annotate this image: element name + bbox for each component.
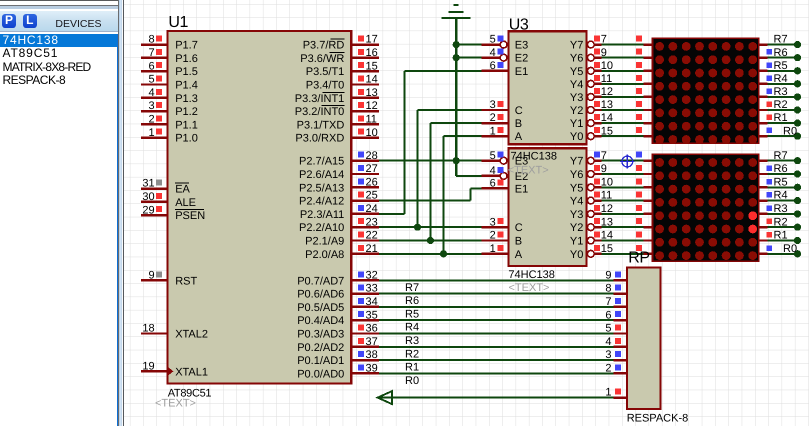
svg-text:21: 21: [366, 243, 378, 255]
svg-text:R1: R1: [774, 230, 788, 242]
svg-text:5: 5: [490, 150, 496, 162]
svg-text:9: 9: [601, 47, 607, 59]
svg-text:7: 7: [605, 296, 611, 308]
svg-text:12: 12: [366, 100, 378, 112]
svg-text:29: 29: [142, 204, 154, 216]
svg-text:RESPACK-8: RESPACK-8: [627, 413, 689, 425]
svg-text:R4: R4: [405, 322, 419, 334]
svg-text:P3.1/TXD: P3.1/TXD: [297, 119, 345, 131]
svg-text:25: 25: [366, 190, 378, 202]
svg-text:ALE: ALE: [175, 197, 196, 209]
svg-text:<TEXT>: <TEXT>: [155, 398, 196, 410]
svg-text:Y6: Y6: [570, 169, 583, 181]
svg-text:E1: E1: [515, 66, 528, 78]
svg-text:P3.6/WR: P3.6/WR: [300, 53, 344, 65]
svg-text:1: 1: [148, 127, 154, 139]
svg-text:9: 9: [148, 269, 154, 281]
svg-text:3: 3: [490, 99, 496, 111]
svg-text:R0: R0: [783, 125, 797, 137]
svg-text:P2.3/A11: P2.3/A11: [300, 209, 344, 221]
svg-text:P1.3: P1.3: [175, 93, 198, 105]
svg-text:37: 37: [366, 336, 378, 348]
svg-text:E1: E1: [515, 183, 528, 195]
svg-text:3: 3: [605, 349, 611, 361]
svg-text:P2.2/A10: P2.2/A10: [299, 222, 344, 234]
svg-text:R2: R2: [405, 348, 419, 360]
svg-text:P1.6: P1.6: [175, 53, 198, 65]
svg-text:2: 2: [490, 112, 496, 124]
svg-text:P3.2/INT0: P3.2/INT0: [295, 106, 345, 118]
svg-text:6: 6: [605, 309, 611, 321]
svg-text:34: 34: [366, 296, 378, 308]
svg-text:15: 15: [366, 60, 378, 72]
svg-text:12: 12: [601, 203, 613, 215]
svg-text:P2.1/A9: P2.1/A9: [305, 236, 344, 248]
svg-text:P0.0/AD0: P0.0/AD0: [297, 368, 344, 380]
svg-text:R3: R3: [405, 335, 419, 347]
svg-text:18: 18: [142, 323, 154, 335]
svg-text:P2.6/A14: P2.6/A14: [299, 169, 344, 181]
svg-text:8: 8: [605, 283, 611, 295]
svg-text:R0: R0: [783, 243, 797, 255]
svg-text:31: 31: [142, 178, 154, 190]
svg-text:RP: RP: [628, 249, 649, 266]
svg-text:4: 4: [490, 47, 496, 59]
svg-text:Y6: Y6: [570, 53, 583, 65]
svg-text:Y4: Y4: [570, 196, 583, 208]
svg-text:74HC138: 74HC138: [511, 151, 557, 163]
svg-text:32: 32: [366, 269, 378, 281]
svg-text:6: 6: [490, 60, 496, 72]
svg-text:R4: R4: [774, 190, 788, 202]
svg-text:P1.4: P1.4: [175, 80, 198, 92]
svg-text:P0.5/AD5: P0.5/AD5: [297, 302, 344, 314]
svg-text:15: 15: [601, 243, 613, 255]
svg-text:28: 28: [366, 150, 378, 162]
svg-text:Y1: Y1: [570, 118, 583, 130]
svg-text:R7: R7: [774, 150, 788, 162]
svg-text:A: A: [515, 249, 523, 261]
svg-text:Y7: Y7: [570, 40, 583, 52]
svg-text:6: 6: [148, 60, 154, 72]
svg-text:74HC138: 74HC138: [508, 269, 554, 281]
svg-text:36: 36: [366, 323, 378, 335]
svg-text:R4: R4: [774, 73, 788, 85]
svg-text:39: 39: [366, 363, 378, 375]
svg-text:R7: R7: [774, 34, 788, 46]
svg-text:2: 2: [490, 230, 496, 242]
svg-text:15: 15: [601, 125, 613, 137]
svg-text:7: 7: [601, 150, 607, 162]
svg-text:10: 10: [601, 176, 613, 188]
svg-text:Y5: Y5: [570, 182, 583, 194]
svg-text:22: 22: [366, 230, 378, 242]
svg-text:P3.3/INT1: P3.3/INT1: [295, 93, 345, 105]
svg-text:EA: EA: [175, 184, 190, 196]
svg-text:14: 14: [601, 230, 613, 242]
svg-text:14: 14: [601, 112, 613, 124]
svg-text:Y1: Y1: [570, 236, 583, 248]
svg-text:R3: R3: [774, 86, 788, 98]
svg-text:35: 35: [366, 309, 378, 321]
svg-text:1: 1: [490, 243, 496, 255]
svg-text:16: 16: [366, 47, 378, 59]
svg-text:P0.7/AD7: P0.7/AD7: [297, 275, 344, 287]
svg-text:3: 3: [148, 100, 154, 112]
svg-text:Y3: Y3: [570, 92, 583, 104]
svg-text:8: 8: [148, 34, 154, 46]
svg-text:7: 7: [148, 47, 154, 59]
svg-text:14: 14: [366, 74, 378, 86]
svg-text:Y2: Y2: [570, 105, 583, 117]
svg-text:12: 12: [601, 86, 613, 98]
svg-text:U1: U1: [168, 14, 188, 31]
svg-text:P1.2: P1.2: [175, 106, 198, 118]
svg-text:RST: RST: [175, 275, 197, 287]
svg-text:XTAL1: XTAL1: [175, 366, 208, 378]
svg-text:7: 7: [601, 34, 607, 46]
svg-text:R0: R0: [405, 375, 419, 387]
svg-text:P2.7/A15: P2.7/A15: [299, 156, 344, 168]
svg-text:<TEXT>: <TEXT>: [508, 165, 549, 177]
svg-text:Y2: Y2: [570, 222, 583, 234]
svg-text:P0.3/AD3: P0.3/AD3: [297, 329, 344, 341]
svg-text:13: 13: [366, 87, 378, 99]
svg-text:P3.4/T0: P3.4/T0: [306, 80, 345, 92]
svg-text:2: 2: [148, 114, 154, 126]
svg-text:Y3: Y3: [570, 209, 583, 221]
svg-text:P0.1/AD1: P0.1/AD1: [297, 355, 344, 367]
svg-text:17: 17: [366, 34, 378, 46]
svg-text:38: 38: [366, 349, 378, 361]
svg-text:R6: R6: [405, 295, 419, 307]
svg-text:PSEN: PSEN: [175, 210, 205, 222]
svg-text:P2.4/A12: P2.4/A12: [299, 196, 344, 208]
svg-text:6: 6: [490, 178, 496, 190]
svg-text:P3.5/T1: P3.5/T1: [306, 66, 345, 78]
svg-text:P2.5/A13: P2.5/A13: [299, 182, 344, 194]
svg-text:1: 1: [490, 125, 496, 137]
svg-text:R1: R1: [405, 362, 419, 374]
svg-text:P1.0: P1.0: [175, 133, 198, 145]
svg-text:Y5: Y5: [570, 66, 583, 78]
svg-text:4: 4: [148, 87, 154, 99]
svg-text:R1: R1: [774, 112, 788, 124]
svg-text:27: 27: [366, 163, 378, 175]
svg-text:11: 11: [366, 114, 377, 126]
svg-text:P3.7/RD: P3.7/RD: [303, 40, 345, 52]
svg-text:10: 10: [366, 127, 378, 139]
svg-text:R6: R6: [774, 47, 788, 59]
svg-text:R5: R5: [774, 60, 788, 72]
svg-text:B: B: [515, 118, 522, 130]
svg-text:P1.7: P1.7: [175, 40, 198, 52]
svg-text:2: 2: [605, 363, 611, 375]
svg-text:11: 11: [601, 190, 612, 202]
svg-text:P1.5: P1.5: [175, 66, 198, 78]
svg-text:Y4: Y4: [570, 79, 583, 91]
svg-text:Y0: Y0: [570, 131, 583, 143]
svg-text:Y7: Y7: [570, 156, 583, 168]
svg-text:5: 5: [605, 323, 611, 335]
svg-text:1: 1: [605, 387, 611, 399]
svg-text:XTAL2: XTAL2: [175, 329, 208, 341]
svg-text:19: 19: [142, 360, 154, 372]
svg-text:4: 4: [605, 336, 611, 348]
svg-text:30: 30: [142, 191, 154, 203]
svg-text:26: 26: [366, 176, 378, 188]
svg-text:5: 5: [148, 74, 154, 86]
svg-text:P3.0/RXD: P3.0/RXD: [295, 133, 344, 145]
svg-text:10: 10: [601, 60, 613, 72]
svg-text:<TEXT>: <TEXT>: [509, 282, 550, 294]
svg-text:P0.6/AD6: P0.6/AD6: [297, 289, 344, 301]
svg-text:P1.1: P1.1: [175, 119, 198, 131]
svg-text:Y0: Y0: [570, 249, 583, 261]
svg-text:R5: R5: [774, 176, 788, 188]
svg-text:4: 4: [490, 165, 496, 177]
svg-text:3: 3: [490, 216, 496, 228]
svg-text:E2: E2: [515, 53, 528, 65]
svg-text:9: 9: [605, 269, 611, 281]
svg-text:P0.4/AD4: P0.4/AD4: [297, 315, 344, 327]
svg-text:C: C: [515, 105, 523, 117]
svg-text:R7: R7: [405, 282, 419, 294]
svg-text:5: 5: [490, 34, 496, 46]
svg-text:R2: R2: [774, 216, 788, 228]
svg-text:R5: R5: [405, 308, 419, 320]
svg-text:23: 23: [366, 216, 378, 228]
svg-text:24: 24: [366, 203, 378, 215]
svg-text:33: 33: [366, 283, 378, 295]
svg-text:U3: U3: [509, 17, 529, 34]
svg-text:B: B: [515, 236, 522, 248]
svg-text:9: 9: [601, 163, 607, 175]
svg-text:P0.2/AD2: P0.2/AD2: [297, 342, 344, 354]
svg-text:C: C: [515, 222, 523, 234]
svg-text:R3: R3: [774, 203, 788, 215]
svg-text:13: 13: [601, 216, 613, 228]
svg-text:A: A: [515, 131, 523, 143]
svg-text:E3: E3: [515, 40, 528, 52]
svg-text:R6: R6: [774, 163, 788, 175]
svg-text:R2: R2: [774, 99, 788, 111]
svg-text:13: 13: [601, 99, 613, 111]
svg-text:P2.0/A8: P2.0/A8: [305, 249, 344, 261]
svg-text:11: 11: [601, 73, 612, 85]
